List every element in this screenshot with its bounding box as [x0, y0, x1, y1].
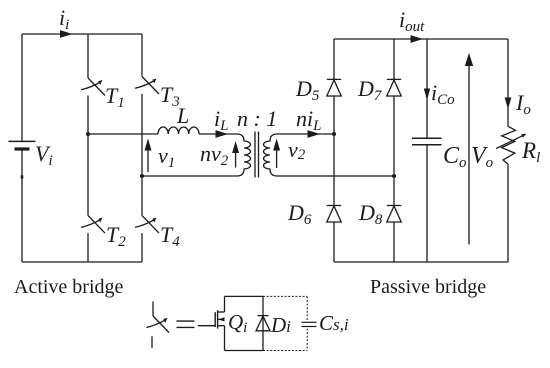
svg-text:v1: v1 — [158, 143, 175, 171]
current arrow I_o — [505, 98, 512, 110]
wire active bridge bottom rail — [22, 261, 142, 263]
legend gate lead wire — [198, 325, 215, 327]
current arrow i_L — [216, 130, 229, 138]
inductor L — [158, 127, 199, 134]
svg-text:L: L — [176, 103, 189, 128]
svg-text:D8: D8 — [358, 200, 383, 228]
node small mark on left rail — [21, 175, 24, 178]
node bridge midpoint B — [140, 174, 144, 178]
wire bridge A midpoint to inductor — [88, 133, 158, 135]
legend switch symbol — [146, 302, 169, 349]
voltage arrow V_o — [465, 53, 473, 245]
svg-text:Co: Co — [443, 143, 467, 171]
capacitor Co — [412, 138, 442, 144]
svg-text:D6: D6 — [287, 200, 312, 228]
transformer core — [255, 132, 259, 178]
svg-text:Active bridge: Active bridge — [14, 276, 124, 298]
wire diode leg 1 middle — [333, 96, 335, 206]
wire leg A middle — [87, 96, 89, 216]
svg-text:iL: iL — [214, 106, 228, 134]
svg-text:Passive bridge: Passive bridge — [370, 276, 486, 298]
diode D6 — [327, 206, 341, 223]
svg-text:Io: Io — [515, 90, 531, 118]
wire output top rail — [334, 38, 508, 40]
diode D7 — [387, 79, 401, 96]
legend dashed box — [263, 296, 307, 350]
wire inductor to transformer primary — [199, 133, 237, 135]
switch T4 — [135, 216, 159, 234]
wire capacitor branch upper — [426, 39, 428, 138]
node secondary bottom junction — [392, 174, 396, 178]
wire left rail lower — [21, 149, 23, 262]
svg-text:Cs,i: Cs,i — [319, 311, 349, 335]
transformer primary winding — [237, 134, 251, 176]
wire diode leg 2 lower — [393, 222, 395, 262]
voltage arrow v2 — [273, 139, 280, 169]
svg-text:v2: v2 — [288, 137, 306, 163]
wire primary bottom — [142, 175, 237, 177]
wire diode leg 1 lower — [333, 222, 335, 262]
svg-text:T1: T1 — [105, 83, 125, 111]
node niL junction — [332, 132, 336, 136]
equals sign — [177, 321, 195, 327]
wire input top rail — [22, 33, 142, 35]
transformer secondary winding — [264, 134, 278, 176]
svg-text:Vi: Vi — [35, 141, 53, 169]
svg-text:T2: T2 — [106, 222, 126, 250]
switch T3 — [135, 77, 159, 95]
current arrow i_out — [411, 35, 424, 43]
svg-text:iCo: iCo — [431, 80, 455, 108]
diode D5 — [327, 79, 341, 96]
diode D8 — [387, 206, 401, 223]
wire diode leg 2 upper — [393, 39, 395, 79]
svg-text:D7: D7 — [357, 76, 383, 104]
svg-text:niL: niL — [296, 106, 321, 134]
wire capacitor branch lower — [426, 145, 428, 262]
wire load branch upper — [507, 39, 509, 126]
switch T1 — [81, 78, 105, 96]
wire leg B lower — [141, 233, 143, 262]
wire load branch lower — [507, 164, 509, 262]
wire left rail upper — [21, 34, 23, 141]
svg-text:T4: T4 — [160, 222, 180, 250]
wire leg B middle — [141, 94, 143, 216]
wire secondary bottom to diode bridge — [277, 175, 394, 177]
svg-text:iout: iout — [399, 7, 425, 35]
diode Di — [256, 316, 270, 331]
voltage arrow nv2 — [232, 141, 239, 168]
MOSFET Q_i — [215, 310, 224, 328]
current arrow ni_L — [308, 130, 321, 138]
wire leg B upper — [141, 34, 143, 77]
svg-text:Vo: Vo — [471, 143, 494, 171]
wire leg A lower — [87, 233, 89, 262]
node bridge midpoint A — [86, 132, 90, 136]
svg-text:ii: ii — [59, 5, 69, 33]
capacitor Cs,i — [302, 322, 317, 326]
current arrow i_Co — [424, 89, 430, 101]
svg-text:Rl: Rl — [521, 138, 540, 166]
current arrow i_i — [60, 30, 73, 38]
resistor R_l variable — [496, 126, 526, 164]
svg-text:n : 1: n : 1 — [237, 106, 277, 131]
wire diode leg 1 upper — [333, 39, 335, 79]
svg-text:Di: Di — [270, 313, 291, 337]
legend solid box — [225, 296, 264, 350]
voltage arrow v1 — [145, 139, 152, 173]
svg-text:D5: D5 — [295, 76, 320, 104]
svg-text:nv2: nv2 — [200, 141, 229, 169]
wire leg A upper — [87, 34, 89, 78]
battery Vi — [9, 141, 36, 149]
switch T2 — [81, 216, 105, 234]
svg-text:Qi: Qi — [228, 310, 247, 336]
wire diode leg 2 middle — [393, 96, 395, 206]
wire secondary top to diode bridge — [277, 133, 334, 135]
wire output bottom rail — [334, 261, 508, 263]
